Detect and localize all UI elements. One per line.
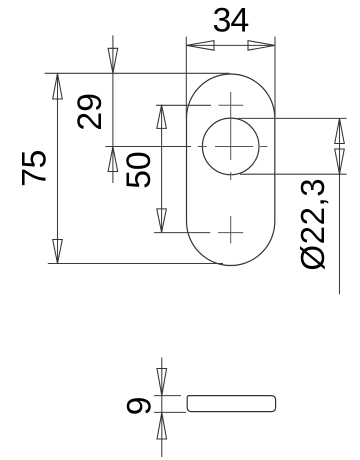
extension line bottom (for 75) xyxy=(48,263,223,265)
vertical centerline xyxy=(230,92,232,244)
extension line side view top (for 9) xyxy=(154,395,181,397)
dimension 9 line xyxy=(161,358,163,458)
arrow bottom of 75 xyxy=(53,240,63,264)
arrow below (9, points up) xyxy=(157,413,167,439)
extension line right (for 34) xyxy=(274,37,276,118)
dimension 29 line xyxy=(112,35,114,183)
arrow below centre (29, points up) xyxy=(108,147,118,172)
side view plate xyxy=(187,396,275,412)
dimension diameter line xyxy=(339,118,341,294)
hole circle xyxy=(202,118,259,175)
extension line left (for 34) xyxy=(185,37,187,118)
extension line top cross (for 50) xyxy=(156,104,211,106)
arrow above (9, points down) xyxy=(157,369,167,396)
horizontal centerline of hole xyxy=(198,146,268,148)
dimension 34 line xyxy=(186,44,275,46)
dimension 75 line xyxy=(57,74,59,264)
arrow above (29, points down) xyxy=(108,48,118,73)
extension line top (for 75 and 29) xyxy=(45,72,230,74)
extension line hole top (for diameter) xyxy=(238,117,347,119)
arrow top of diameter xyxy=(335,118,345,143)
extension line bottom cross (for 50) xyxy=(154,232,210,234)
arrow left of 34 xyxy=(186,41,214,51)
bottom fixing cross xyxy=(218,232,243,234)
extension line hole centre (for 29) xyxy=(105,146,191,148)
svg-text:34: 34 xyxy=(212,2,248,40)
top fixing cross xyxy=(218,104,243,106)
svg-text:9: 9 xyxy=(121,396,159,415)
arrow bottom of 50 xyxy=(157,209,167,233)
plate outline (plan view, stadium shape) xyxy=(187,74,275,266)
svg-text:75: 75 xyxy=(15,150,53,187)
arrow bottom of diameter xyxy=(335,149,345,174)
extension line side view bottom (for 9) xyxy=(154,411,186,413)
svg-text:Ø22,3: Ø22,3 xyxy=(294,178,331,271)
arrow right of 34 xyxy=(248,41,275,51)
svg-text:29: 29 xyxy=(71,93,109,131)
arrow top of 75 xyxy=(53,74,63,100)
dimension 50 line xyxy=(161,105,163,232)
svg-text:50: 50 xyxy=(120,152,158,189)
extension line hole bottom (for diameter) xyxy=(240,173,347,175)
arrow top of 50 xyxy=(157,105,167,128)
